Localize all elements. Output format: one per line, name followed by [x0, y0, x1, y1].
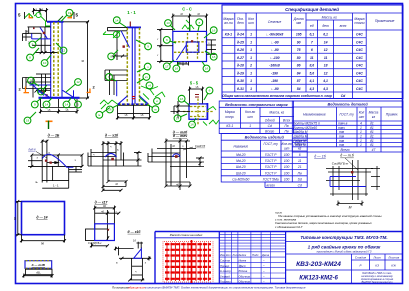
svg-text:11: 11: [324, 56, 328, 60]
hardware table (middle left lower): [221, 134, 307, 183]
svg-text:∟-90: ∟-90: [270, 48, 278, 52]
base pedestal: [39, 99, 79, 114]
svg-text:СосR Гб: СосR Гб: [195, 144, 206, 148]
svg-text:4,3: 4,3: [308, 87, 314, 91]
svg-text:5 - 5: 5 - 5: [190, 80, 199, 85]
svg-text:9б: 9б: [41, 242, 45, 246]
svg-text:1б: 1б: [133, 238, 136, 242]
svg-text:Кол: Кол: [226, 253, 231, 257]
svg-text:穂асд: 穂асд: [239, 264, 247, 268]
svg-text:14: 14: [176, 117, 180, 121]
balloons D: [174, 87, 213, 128]
svg-text:165: 165: [296, 33, 302, 37]
svg-text:-160х8: -160х8: [269, 64, 280, 68]
details list table (middle right): [292, 101, 403, 152]
section 1-1 column view: [96, 10, 165, 120]
svg-text:4,1: 4,1: [308, 79, 314, 83]
svg-text:КВ3-203-КМ24: КВ3-203-КМ24: [296, 261, 341, 268]
weld dot: [43, 32, 45, 34]
svg-text:12: 12: [324, 48, 328, 52]
balloons C: [163, 19, 217, 72]
base pedestal: [116, 105, 151, 119]
section 5-5 view: [171, 80, 220, 146]
svg-text:ед: ед: [310, 24, 314, 28]
svg-text:12: 12: [324, 71, 328, 75]
svg-text:1: 1: [249, 124, 251, 128]
svg-text:-190: -190: [271, 71, 278, 75]
svg-text:Утверд: Утверд: [220, 274, 230, 278]
svg-text:Примечание: Примечание: [375, 19, 395, 23]
svg-text:100: 100: [284, 153, 290, 157]
weld circle-cross symbol: [103, 31, 120, 38]
right dimension line: [64, 20, 90, 99]
svg-text:Сос(R)ГБ-т: Сос(R)ГБ-т: [332, 161, 349, 165]
svg-text:д — х1б: д — х1б: [128, 230, 142, 234]
svg-text:86: 86: [297, 64, 301, 68]
svg-text:∟-90: ∟-90: [270, 40, 278, 44]
svg-text:Лист: Лист: [372, 255, 381, 259]
svg-text:6: 6: [311, 48, 313, 52]
mid-left bracket: [23, 74, 51, 98]
svg-text:ГОСТ Р: ГОСТ Р: [265, 171, 277, 175]
bottom section marker T: [46, 121, 53, 130]
svg-text:1 - 1: 1 - 1: [127, 10, 136, 15]
section marker 5 right: [68, 12, 79, 19]
svg-text:1: 1: [250, 79, 252, 83]
weld symbol top-left: [25, 12, 50, 26]
svg-text:1 ряд свайные крюки по обвязк: 1 ряд свайные крюки по обвязк: [308, 243, 381, 249]
section marker 5 left: [18, 12, 33, 19]
svg-text:ГОСТ Р: ГОСТ Р: [265, 153, 277, 157]
notes text block: [275, 211, 382, 229]
svg-text:С4С: С4С: [356, 79, 363, 83]
top dimension line: [171, 14, 208, 32]
upper-left beam bracket: [23, 27, 58, 54]
svg-text:Расход стали на издел: Расход стали на издел: [170, 233, 203, 237]
svg-text:д-28: д-28: [237, 64, 244, 68]
steel usage box header: [170, 233, 203, 237]
svg-text:1б: 1б: [180, 97, 184, 101]
svg-text:6: 6: [81, 60, 85, 62]
svg-text:дет: дет: [322, 24, 329, 28]
svg-text:1б: 1б: [212, 28, 216, 32]
svg-text:1б: 1б: [205, 67, 209, 71]
svg-text:д — 1Б: д — 1Б: [48, 133, 60, 137]
svg-text:д-26: д-26: [237, 48, 244, 52]
svg-text:11: 11: [39, 90, 42, 94]
svg-text:М: М: [349, 206, 352, 210]
svg-text:д — х1б: д — х1б: [105, 133, 119, 137]
svg-text:По вопросам: По вопросам: [112, 286, 129, 290]
right dimension boxes: [207, 40, 217, 54]
position balloons drawing A: [24, 9, 81, 124]
svg-text:Md-20: Md-20: [236, 153, 246, 157]
svg-text:С4С: С4С: [356, 48, 363, 52]
svg-text:∟-90: ∟-90: [270, 87, 278, 91]
svg-text:6: 6: [299, 153, 301, 157]
svg-text:Спецификация деталей: Спецификация деталей: [285, 7, 339, 12]
red weld dot: [351, 171, 353, 173]
svg-text:Название: Название: [233, 144, 248, 148]
red ticks: [195, 94, 199, 96]
base gussets (blue diagonals): [39, 90, 74, 97]
svg-text:Всего: Всего: [265, 130, 274, 134]
svg-text:Примеч.: Примеч.: [386, 113, 399, 117]
svg-text:13: 13: [166, 21, 170, 25]
svg-text:обращаться: обращаться: [128, 286, 145, 290]
svg-text:Ивлев: Ивлев: [239, 259, 247, 263]
left weld arrow at base: [100, 100, 118, 109]
balloons drawing B: [96, 17, 161, 118]
right weld symbols: [140, 86, 166, 103]
gusset detail 2: [88, 133, 142, 192]
svg-text:ГОСТ 5Ма: ГОСТ 5Ма: [263, 178, 279, 182]
svg-text:14: 14: [65, 103, 69, 107]
svg-text:Са-М20х60: Са-М20х60: [232, 178, 249, 182]
svg-text:№док: №док: [239, 253, 247, 257]
svg-text:∟-90х90х8: ∟-90х90х8: [266, 33, 284, 37]
svg-text:Всего: Всего: [340, 148, 349, 152]
mid-left bracket: [105, 70, 127, 95]
svg-text:19: 19: [68, 11, 72, 15]
svg-text:4,3: 4,3: [322, 87, 328, 91]
svg-text:Пв: Пв: [284, 130, 288, 134]
svg-text:Кол-во: Кол-во: [245, 110, 255, 114]
gusset detail 1: [27, 133, 83, 188]
svg-text:Пв: Пв: [284, 124, 288, 128]
svg-text:дет: дет: [237, 21, 244, 25]
svg-text:1: 1: [250, 33, 252, 37]
svg-text:тб: тб: [148, 84, 151, 88]
svg-text:б: б: [166, 38, 168, 42]
svg-text:м: м: [154, 107, 156, 111]
svg-text:14: 14: [324, 40, 328, 44]
svg-text:б: б: [209, 89, 211, 93]
svg-text:ГОСТ, ту: ГОСТ, ту: [339, 113, 354, 117]
svg-text:мм: мм: [296, 21, 301, 25]
svg-text:Масса, кг: Масса, кг: [269, 111, 284, 115]
svg-text:д-30: д-30: [237, 79, 244, 83]
top dimension boxes: [32, 8, 48, 22]
svg-text:19: 19: [26, 119, 30, 123]
shipping marks table (middle left): [219, 101, 293, 134]
svg-text:84: 84: [297, 71, 301, 75]
svg-text:м: м: [98, 113, 100, 117]
top-left bracket: [108, 27, 129, 60]
svg-text:21: 21: [297, 165, 302, 169]
column flanges (blue): [50, 22, 52, 98]
svg-text:С4С: С4С: [356, 87, 363, 91]
svg-text:д — т1Б: д — т1Б: [32, 263, 46, 267]
svg-text:Всех: Всех: [283, 119, 291, 123]
column elevation view (left): [18, 8, 96, 129]
svg-text:Обычнов: Обычнов: [239, 280, 251, 284]
svg-text:Ведомость деталей: Ведомость деталей: [327, 103, 368, 107]
svg-text:отпр.: отпр.: [225, 115, 234, 119]
svg-text:2: 2: [249, 64, 252, 68]
svg-text:Масса: Масса: [369, 111, 379, 115]
svg-text:11: 11: [310, 56, 314, 60]
bottom small dims: [178, 62, 189, 66]
svg-text:1: 1: [250, 40, 252, 44]
svg-text:ал-ни: ал-ни: [224, 21, 233, 25]
section marker 2 left: [19, 87, 30, 94]
svg-text:Типовые конструкции ТМЗ. МУ03: Типовые конструкции ТМЗ. МУ03-ТМ.: [300, 235, 387, 240]
column cap: [47, 21, 64, 23]
svg-text:Госсавш: Госсавш: [220, 280, 231, 284]
svg-text:Наименование: Наименование: [303, 113, 326, 117]
svg-text:Ведомость отправочных марок: Ведомость отправочных марок: [225, 103, 289, 107]
svg-text:Масса, кг: Масса, кг: [322, 16, 338, 20]
svg-text:всех: всех: [340, 24, 347, 28]
svg-text:Ведомость изделий: Ведомость изделий: [245, 136, 285, 140]
svg-text:6,1: 6,1: [323, 33, 328, 37]
svg-text:КЖ: КЖ: [391, 264, 396, 268]
inner column section: [174, 33, 206, 60]
signature table grid: [219, 232, 285, 284]
svg-text:С4С: С4С: [356, 41, 363, 45]
left dimension lines: [157, 28, 173, 63]
TITLE BLOCK: [112, 232, 403, 290]
base plate square: [22, 202, 65, 235]
svg-text:90: 90: [297, 40, 301, 44]
plate blue square: [189, 104, 207, 119]
svg-text:д — х17: д — х17: [95, 201, 108, 205]
svg-text:д-24: д-24: [237, 33, 244, 37]
svg-text:Общая масса наплавленного мета: Общая масса наплавленного металла сварно…: [222, 94, 332, 98]
svg-text:1: 1: [250, 71, 252, 75]
svg-text:кг: кг: [372, 115, 376, 119]
svg-text:9б: 9б: [13, 216, 17, 220]
blue plate edges in joint detail: [330, 177, 366, 187]
svg-text:14: 14: [115, 18, 119, 22]
svg-text:ЛхR.б: ЛхR.б: [27, 148, 36, 152]
svg-text:д-31: д-31: [237, 87, 244, 91]
blue diagonal brace: [121, 31, 130, 48]
svg-text:54: 54: [297, 87, 301, 91]
red centre tick: [129, 22, 131, 28]
svg-text:Сd: Сd: [268, 124, 272, 128]
svg-text:С4С: С4С: [356, 56, 363, 60]
svg-text:тм: тм: [339, 143, 345, 147]
svg-text:С4С: С4С: [356, 64, 363, 68]
centre lines olive dashed: [183, 99, 214, 126]
svg-text:всего: всего: [266, 183, 275, 187]
svg-text:шт: шт: [247, 115, 253, 119]
svg-text:5,6: 5,6: [309, 71, 314, 75]
svg-text:д1: д1: [370, 143, 374, 147]
svg-text:кч: кч: [145, 75, 148, 79]
svg-text:Стадия: Стадия: [355, 255, 367, 259]
bottom-left details: [13, 200, 151, 281]
svg-text:Состав: Состав: [220, 259, 230, 263]
svg-text:С4С: С4С: [356, 72, 363, 76]
red web ticks: [132, 96, 135, 98]
svg-text:Изм: Изм: [220, 253, 225, 257]
svg-text:Md-20: Md-20: [236, 159, 246, 163]
svg-text:1 - 1: 1 - 1: [53, 183, 59, 187]
column cap: [127, 26, 142, 28]
svg-text:100: 100: [284, 171, 290, 175]
svg-text:10: 10: [43, 61, 47, 65]
corner joint detail (right, below tables): [326, 154, 380, 210]
svg-text:Сос(R)ГБ-х: Сос(R)ГБ-х: [88, 241, 102, 245]
svg-text:ГОСТ Р: ГОСТ Р: [265, 159, 277, 163]
svg-text:шт: шт: [248, 21, 254, 25]
svg-text:Кол: Кол: [359, 111, 365, 115]
svg-text:ВНИПИ Тяжпромэлектро: ВНИПИ Тяжпромэлектро: [361, 280, 393, 284]
svg-text:11: 11: [298, 159, 302, 163]
svg-text:47: 47: [372, 148, 376, 152]
bracket blue outline: [32, 27, 51, 39]
base taper: [118, 96, 149, 104]
svg-text:Пв: Пв: [298, 171, 302, 175]
svg-text:КЗ-1: КЗ-1: [226, 124, 233, 128]
section marker 2 right: [87, 85, 96, 94]
dashed strip detail: [25, 261, 52, 269]
svg-text:Юдина: Юдина: [239, 269, 248, 273]
svg-text:ГОСТ Р: ГОСТ Р: [265, 165, 277, 169]
svg-text:80: 80: [297, 56, 301, 60]
specification table (top right): [222, 5, 403, 99]
svg-text:стали: стали: [354, 21, 364, 25]
svg-text:Сd: Сd: [298, 183, 302, 187]
outer plate blue square: [173, 31, 207, 61]
svg-text:С4С: С4С: [356, 33, 363, 37]
svg-text:12: 12: [62, 49, 66, 53]
svg-text:Обычнов: Обычнов: [239, 274, 251, 278]
weld seams (olive dashed): [54, 22, 58, 98]
svg-text:8,6: 8,6: [309, 64, 314, 68]
svg-text:с обозначением Сd-Т: с обозначением Сd-Т: [275, 225, 303, 229]
svg-text:1б: 1б: [212, 55, 216, 59]
svg-text:Гайка М: Гайка М: [294, 143, 307, 147]
svg-text:Подп: Подп: [252, 253, 259, 257]
svg-text:18: 18: [324, 64, 328, 68]
svg-text:д-27: д-27: [237, 56, 245, 60]
svg-text:∟-100: ∟-100: [269, 56, 279, 60]
svg-text:д — 14: д — 14: [36, 216, 47, 220]
svg-text:Р: Р: [359, 264, 361, 268]
section C-C view: [157, 6, 217, 72]
svg-text:д — тлч: д — тлч: [173, 134, 187, 138]
weld marks right: [203, 107, 219, 147]
red steel-usage grid: [163, 240, 213, 283]
bottom strip text below frame: [112, 286, 306, 290]
base seam dashed: [118, 103, 150, 105]
column web double blue: [132, 27, 135, 104]
svg-text:12: 12: [76, 80, 80, 84]
title area: [286, 242, 403, 284]
svg-text:шт: шт: [284, 146, 290, 150]
svg-text:Марка: Марка: [225, 110, 235, 114]
svg-text:Сечение: Сечение: [268, 20, 282, 24]
svg-text:1: 1: [250, 56, 252, 60]
svg-text:100: 100: [284, 165, 290, 169]
svg-text:1: 1: [360, 143, 362, 147]
svg-text:гБL: гБL: [36, 271, 41, 275]
svg-text:75: 75: [297, 48, 301, 52]
svg-text:в институт ВНИПИ-ТМП. Отдел те: в институт ВНИПИ-ТМП. Отдел технической …: [145, 286, 306, 290]
weld zigzag top: [182, 20, 194, 32]
svg-text:100: 100: [284, 178, 290, 182]
base plate: [39, 97, 80, 99]
svg-text:1б: 1б: [175, 67, 179, 71]
svg-text:С - С: С - С: [182, 6, 192, 11]
svg-text:Листов: Листов: [387, 255, 399, 259]
svg-text:д — 1б: д — 1б: [314, 154, 327, 158]
svg-text:-190: -190: [271, 79, 278, 83]
svg-text:Провер: Провер: [220, 264, 230, 268]
gusset detail 3: [148, 134, 206, 190]
svg-text:д-25: д-25: [237, 40, 244, 44]
svg-text:1: 1: [250, 87, 252, 91]
svg-text:КЖ123-КМ2-6: КЖ123-КМ2-6: [299, 276, 338, 282]
svg-text:Н.контр: Н.контр: [220, 269, 231, 273]
svg-text:КЗ: КЗ: [375, 264, 379, 268]
svg-text:17: 17: [165, 65, 169, 69]
dark green diagonal at cap: [57, 16, 63, 22]
svg-text:Шd-20: Шd-20: [236, 165, 246, 169]
svg-text:1: 1: [250, 48, 252, 52]
svg-text:д-29: д-29: [237, 71, 244, 75]
svg-text:1б: 1б: [108, 108, 112, 112]
svg-text:Одной: Одной: [265, 119, 275, 123]
svg-text:6,1: 6,1: [309, 33, 314, 37]
svg-text:1б: 1б: [190, 123, 194, 127]
svg-text:Шd-20: Шd-20: [236, 171, 246, 175]
specification table text: [222, 7, 394, 98]
svg-text:д — т.б: д — т.б: [340, 154, 355, 158]
top dim bracket: [188, 87, 204, 104]
svg-text:КЗ-1: КЗ-1: [225, 33, 232, 37]
svg-text:шт: шт: [359, 115, 365, 119]
svg-text:100: 100: [284, 159, 290, 163]
svg-text:ГОСТ, ту: ГОСТ, ту: [263, 142, 278, 146]
svg-text:прикладные с Миний шбанс задви: прикладные с Миний шбанс задвинутой ГЗ: [317, 250, 372, 254]
left dims: [171, 101, 191, 118]
svg-text:Sd: Sd: [298, 178, 302, 182]
svg-text:4,1: 4,1: [322, 79, 328, 83]
column edges (olive dashed): [127, 28, 139, 104]
svg-text:14: 14: [45, 103, 49, 107]
svg-text:Дата: Дата: [261, 253, 270, 257]
